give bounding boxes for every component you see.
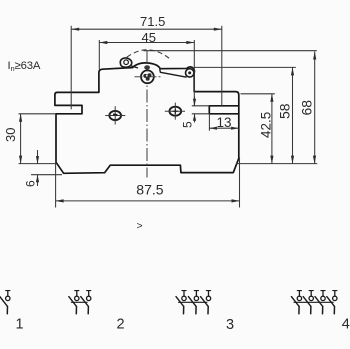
handle travel arc (dashed) [127,50,172,60]
latch link line [131,66,138,68]
dim 6 extension bottom [31,174,62,176]
toggle shaft circle [141,70,154,83]
arrow 5 top [193,99,196,106]
symbol 2: linkage bar [71,301,87,303]
symbol 3: pole 3 blade [201,297,209,307]
symbol 4: pole 4 blade [327,297,335,307]
dim 58 extension top [194,66,296,68]
dim 30 extension top [19,113,57,115]
symbol 3: pole 3 bottom lead [207,306,209,313]
schematic symbols [0,291,10,314]
symbol 4: pole 4 bottom lead [333,306,335,313]
symbol 4: pole 1 tick [297,290,301,292]
arrow 42.5 bottom [270,156,273,164]
symbol 3: pole 3 contact circle [206,296,210,300]
symbol 4: pole 2 bottom lead [310,306,312,313]
dim 42.5 extension top [241,93,275,95]
dim 30 line [20,114,22,164]
dim 45 line [99,42,194,44]
symbol 3: pole 1 tick [182,290,186,292]
symbol 4: pole 2 contact circle [309,296,313,300]
dim 68 extension top [144,50,317,52]
symbol 4: pole 2 tick [309,290,313,292]
svg-text:42.5: 42.5 [258,112,273,138]
latch pin [124,60,129,65]
symbol 4: pole 3 bottom lead [322,306,324,313]
dim 68 line [314,52,316,164]
dim 58 line [292,67,294,163]
dimension group style [19,26,318,208]
dim 45/5 extension vertical right [193,40,195,106]
symbol 1: pole 1 contact circle [6,296,10,300]
arrow 6 bottom [36,175,39,183]
pivot pin [188,71,191,74]
symbol 3: pole 3 tick [206,290,210,292]
symbol 3: pole 2 blade [188,297,196,307]
dim 13 extension left [208,114,210,131]
svg-text:13: 13 [217,115,232,130]
symbol 3: pole 2 bottom lead [195,306,197,313]
svg-text:3: 3 [226,317,234,333]
arrow 68 bottom [313,156,316,164]
svg-text:5: 5 [181,121,195,128]
symbol 1: pole 1 bottom lead [6,306,8,313]
toggle knob [144,65,150,69]
svg-text:2: 2 [117,317,125,333]
svg-text:87.5: 87.5 [136,181,163,197]
symbol 4: pole 3 contact circle [321,296,325,300]
arrow 5 bottom [193,114,196,121]
dim 45 extension line left [98,40,100,70]
symbol 1: pole 1 tick [6,290,10,292]
lever arm underside [160,68,187,77]
arrow 71.5 left [71,28,79,31]
symbol 4: pole 4 contact circle [333,296,337,300]
right DIN-rail notch [209,106,239,114]
dim 6 arrow stems [37,150,39,164]
dim 5 arrow stems [194,97,196,106]
arrow 71.5 right [214,28,222,31]
arrow 30 top [19,114,22,122]
symbol 1: pole 1 blade [0,297,7,307]
pole count labels [16,317,350,334]
arrow 42.5 top [270,94,273,102]
dim 42.5 line [271,94,273,164]
svg-text:>: > [137,220,143,232]
symbol 4: linkage bar [294,301,333,303]
dim 71.5 extension lines [70,26,72,110]
symbol 2: pole 1 contact circle [75,296,79,300]
arrowheads [19,28,316,203]
symbol 2: pole 2 bottom lead [87,306,89,313]
svg-text:71.5: 71.5 [140,14,165,29]
symbol 4: pole 1 blade [291,297,299,307]
symbol 2: pole 2 tick [87,290,91,292]
breaker body outline [55,63,239,173]
svg-text:4: 4 [342,317,350,333]
symbol 4: pole 1 bottom lead [298,306,300,313]
symbol 3: pole 1 contact circle [182,296,186,300]
arrow 13 left [209,127,217,130]
arrow 45 left [99,41,107,44]
toggle crosshair [135,76,161,78]
arrow 87.5 left [56,199,64,202]
dim 13 line [209,127,238,129]
symbol 3: pole 2 tick [194,290,198,292]
trip latch [120,58,131,67]
svg-text:1: 1 [16,317,24,333]
svg-text:In≥63A: In≥63A [8,60,41,73]
dimension texts [3,14,314,198]
dim 87.5 extension left [55,162,57,208]
symbol 3: pole 1 bottom lead [183,306,185,313]
arrow 45 right [186,41,194,44]
symbol 4: pole 1 contact circle [297,296,301,300]
arrow 68 top [313,52,316,60]
symbol 3: linkage bar [179,301,208,303]
symbol 2: pole 1 blade [69,297,77,307]
arrow 87.5 right [232,199,240,202]
svg-text:45: 45 [142,30,156,45]
toggle shaft blob [143,73,151,81]
dim 71.5 line [71,28,222,30]
symbol 3: pole 1 blade [176,297,184,307]
symbol 2: pole 2 blade [81,297,89,307]
symbol 3: pole 2 contact circle [194,296,198,300]
dim 87.5 line [56,200,240,202]
lever pivot [186,69,194,77]
symbol 2: pole 1 tick [75,290,79,292]
arrow 6 top [36,156,39,164]
right dims extension bottom [236,163,317,165]
symbol 2: pole 2 contact circle [87,296,91,300]
svg-text:6: 6 [24,180,38,187]
symbol 4: pole 2 blade [303,297,311,307]
dim 87.5 extension right [239,158,241,208]
arrow 30 bottom [19,156,22,164]
symbol 4: pole 3 tick [321,290,325,292]
arrow 13 right [231,127,239,130]
dim 5 extension lines [192,105,210,107]
symbol 2: pole 1 bottom lead [75,306,77,313]
arrow 58 top [291,67,294,75]
svg-text:58: 58 [276,103,292,119]
center line body (dash-dot) [146,51,148,178]
symbol 4: pole 4 tick [333,290,337,292]
symbol 4: pole 3 blade [315,297,323,307]
svg-text:68: 68 [298,100,314,116]
arrow 58 bottom [291,156,294,164]
svg-text:30: 30 [3,128,18,142]
left terminal screw [105,106,125,124]
dim 30/6 extension bottom [19,163,57,165]
right terminal screw [165,103,185,120]
